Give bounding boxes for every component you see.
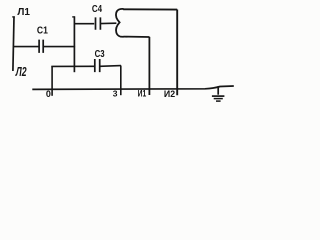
svg-text:3: 3 (113, 88, 118, 98)
svg-text:И1: И1 (138, 89, 147, 99)
wire Л-line to C1 (13, 46, 39, 48)
ground (212, 86, 225, 101)
wire left drop to C3 (51, 65, 94, 67)
svg-text:0: 0 (46, 89, 51, 99)
svg-text:C4: C4 (92, 3, 102, 15)
svg-text:Л2: Л2 (15, 65, 27, 79)
wire C3 to right drop (100, 65, 121, 68)
svg-text:И2: И2 (164, 89, 175, 99)
terminal tick central top (72, 16, 75, 18)
svg-text:C3: C3 (95, 48, 105, 60)
svg-text:C1: C1 (37, 25, 48, 37)
wire C3 branch left drop (51, 66, 53, 96)
wire central vertical node (73, 16, 75, 72)
capacitor C3 (95, 59, 100, 72)
capacitor C1 (39, 40, 43, 53)
wire vertical to C4 (74, 23, 94, 25)
wire C1 to node vertical (43, 46, 75, 48)
wire И1 vertical (148, 37, 150, 95)
wire И2 vertical (176, 10, 178, 96)
coil L1 (116, 9, 124, 37)
wire C3 branch right drop (120, 66, 122, 96)
terminal tick top (12, 16, 15, 18)
wire antenna vertical Л1-Л2 (13, 16, 14, 71)
wire C4 to coil (101, 22, 117, 24)
wire coil top to right (123, 8, 177, 10)
capacitor C4 (96, 17, 101, 29)
svg-text:Л1: Л1 (17, 7, 30, 18)
wire ground bus (32, 86, 234, 89)
wire coil bottom to right (124, 36, 150, 38)
